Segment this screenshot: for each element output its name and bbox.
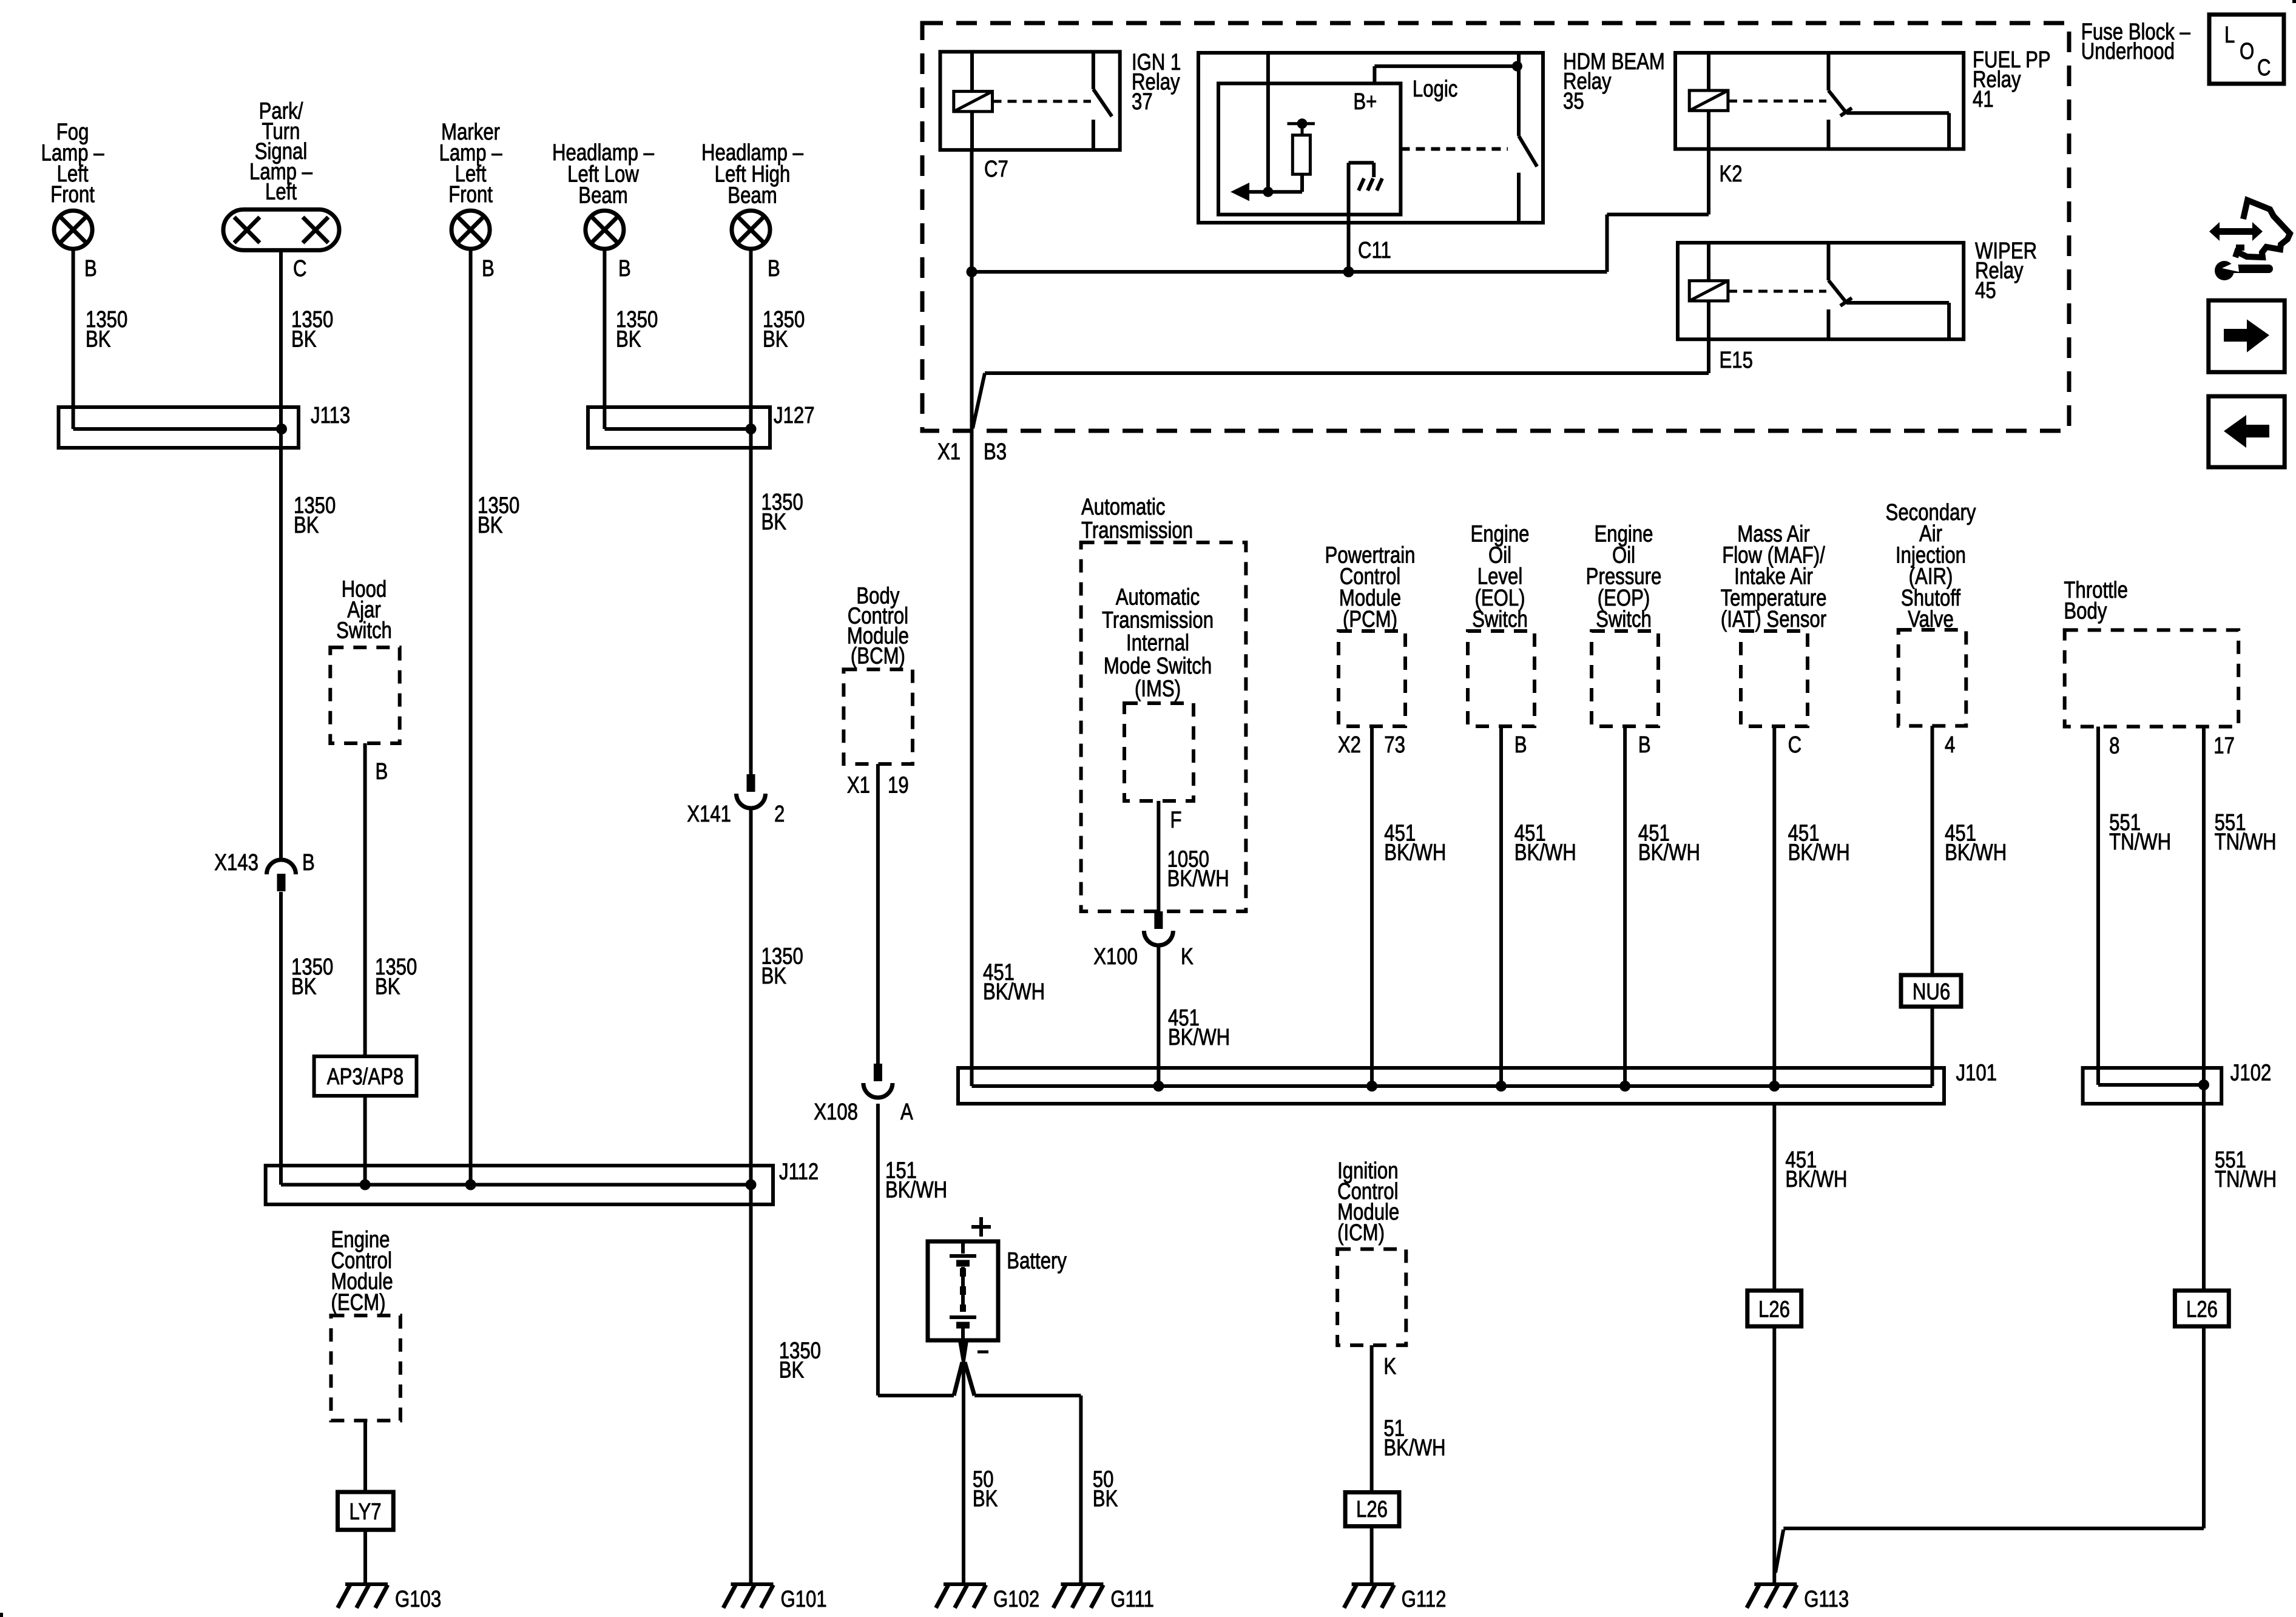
svg-text:BK: BK [973, 1487, 998, 1512]
svg-text:Beam: Beam [728, 183, 777, 209]
svg-text:LY7: LY7 [349, 1499, 381, 1525]
svg-text:BK: BK [375, 974, 400, 999]
svg-text:Transmission: Transmission [1102, 608, 1214, 633]
svg-text:17: 17 [2213, 734, 2235, 759]
svg-text:BK/WH: BK/WH [1945, 840, 2007, 866]
svg-text:(IAT) Sensor: (IAT) Sensor [1721, 607, 1826, 632]
svg-text:G102: G102 [993, 1587, 1039, 1612]
svg-text:TN/WH: TN/WH [2109, 829, 2171, 855]
svg-text:J101: J101 [1956, 1061, 1997, 1086]
svg-text:Front: Front [448, 182, 493, 208]
svg-text:X1: X1 [847, 772, 870, 798]
svg-text:(IMS): (IMS) [1135, 677, 1181, 702]
svg-text:K: K [1181, 944, 1194, 970]
svg-text:BK: BK [86, 327, 111, 353]
svg-text:G112: G112 [1402, 1587, 1447, 1612]
svg-text:G113: G113 [1804, 1587, 1849, 1612]
svg-text:TN/WH: TN/WH [2215, 1167, 2277, 1192]
svg-text:L26: L26 [2186, 1297, 2218, 1323]
svg-text:B: B [618, 256, 631, 282]
svg-text:BK: BK [779, 1358, 805, 1383]
svg-text:Switch: Switch [1596, 607, 1652, 632]
svg-text:A: A [900, 1099, 914, 1125]
svg-text:J127: J127 [774, 403, 815, 428]
svg-text:37: 37 [1132, 89, 1153, 115]
svg-text:C: C [293, 256, 307, 282]
svg-text:Switch: Switch [1472, 607, 1528, 632]
svg-text:Underhood: Underhood [2081, 39, 2175, 64]
svg-text:BK/WH: BK/WH [1383, 1436, 1445, 1461]
svg-text:Mode Switch: Mode Switch [1104, 653, 1212, 679]
svg-text:B: B [482, 256, 495, 282]
svg-text:E15: E15 [1720, 348, 1753, 373]
svg-text:J102: J102 [2230, 1061, 2272, 1086]
svg-text:73: 73 [1384, 732, 1405, 758]
svg-text:BK: BK [761, 510, 787, 535]
svg-text:G103: G103 [395, 1587, 441, 1612]
svg-text:BK/WH: BK/WH [885, 1178, 947, 1203]
svg-text:C: C [1788, 732, 1802, 758]
svg-text:(BCM): (BCM) [851, 644, 905, 669]
svg-text:Beam: Beam [578, 183, 627, 209]
svg-text:BK: BK [291, 327, 317, 353]
svg-text:B: B [1638, 732, 1651, 758]
svg-text:(ECM): (ECM) [331, 1290, 386, 1315]
svg-text:X2: X2 [1338, 732, 1361, 758]
svg-text:AP3/AP8: AP3/AP8 [327, 1064, 403, 1090]
svg-text:O: O [2240, 39, 2254, 64]
svg-text:C11: C11 [1358, 238, 1391, 263]
svg-text:BK/WH: BK/WH [1638, 840, 1700, 866]
svg-text:B: B [768, 256, 780, 282]
svg-text:Automatic: Automatic [1116, 585, 1200, 610]
svg-text:BK: BK [291, 974, 317, 999]
svg-text:8: 8 [2109, 734, 2119, 759]
svg-text:Transmission: Transmission [1081, 518, 1193, 544]
svg-text:4: 4 [1945, 732, 1955, 758]
svg-text:BK/WH: BK/WH [983, 979, 1045, 1005]
svg-text:L26: L26 [1758, 1297, 1790, 1323]
svg-text:BK: BK [761, 964, 787, 989]
svg-text:X108: X108 [814, 1099, 858, 1125]
svg-text:BK/WH: BK/WH [1168, 1025, 1230, 1050]
svg-text:B: B [84, 256, 97, 282]
svg-text:G111: G111 [1110, 1587, 1154, 1612]
svg-text:J112: J112 [779, 1160, 819, 1185]
svg-text:BK: BK [294, 513, 319, 538]
svg-text:BK: BK [478, 513, 503, 538]
svg-text:(PCM): (PCM) [1343, 607, 1397, 632]
svg-text:Left: Left [265, 180, 297, 205]
svg-text:Switch: Switch [336, 618, 392, 644]
svg-text:Body: Body [2064, 598, 2107, 624]
svg-text:K2: K2 [1720, 161, 1743, 187]
svg-text:BK/WH: BK/WH [1785, 1167, 1847, 1192]
svg-text:X1: X1 [937, 439, 961, 465]
svg-text:Front: Front [50, 182, 95, 208]
svg-text:41: 41 [1973, 87, 1994, 112]
svg-text:BK: BK [1093, 1487, 1118, 1512]
svg-text:2: 2 [774, 802, 785, 827]
svg-text:45: 45 [1975, 278, 1996, 303]
svg-text:X141: X141 [687, 802, 731, 827]
svg-text:X143: X143 [214, 850, 258, 876]
svg-text:Logic: Logic [1413, 76, 1457, 102]
svg-text:J113: J113 [311, 403, 350, 428]
svg-text:19: 19 [888, 772, 909, 798]
svg-text:B: B [376, 759, 388, 785]
svg-text:B+: B+ [1353, 89, 1377, 115]
svg-text:X100: X100 [1093, 944, 1138, 970]
svg-text:B3: B3 [984, 439, 1007, 465]
svg-text:Internal: Internal [1126, 630, 1189, 656]
svg-text:BK/WH: BK/WH [1167, 866, 1229, 892]
svg-text:F: F [1170, 808, 1182, 833]
svg-text:G101: G101 [781, 1587, 827, 1612]
svg-text:B: B [302, 850, 315, 876]
svg-text:Battery: Battery [1007, 1248, 1067, 1274]
svg-text:BK: BK [616, 327, 641, 353]
svg-text:C7: C7 [984, 157, 1008, 182]
svg-text:BK/WH: BK/WH [1788, 840, 1850, 866]
svg-text:K: K [1383, 1354, 1396, 1380]
svg-text:L26: L26 [1356, 1497, 1388, 1522]
svg-text:C: C [2257, 55, 2271, 81]
svg-text:BK/WH: BK/WH [1514, 840, 1576, 866]
svg-text:35: 35 [1563, 89, 1584, 114]
svg-text:L: L [2224, 22, 2235, 48]
svg-text:NU6: NU6 [1913, 979, 1950, 1005]
svg-text:Automatic: Automatic [1081, 495, 1166, 520]
svg-text:(ICM): (ICM) [1337, 1220, 1385, 1246]
svg-text:BK/WH: BK/WH [1384, 840, 1446, 866]
svg-text:TN/WH: TN/WH [2215, 829, 2277, 855]
svg-text:B: B [1514, 732, 1527, 758]
svg-text:BK: BK [763, 327, 788, 353]
